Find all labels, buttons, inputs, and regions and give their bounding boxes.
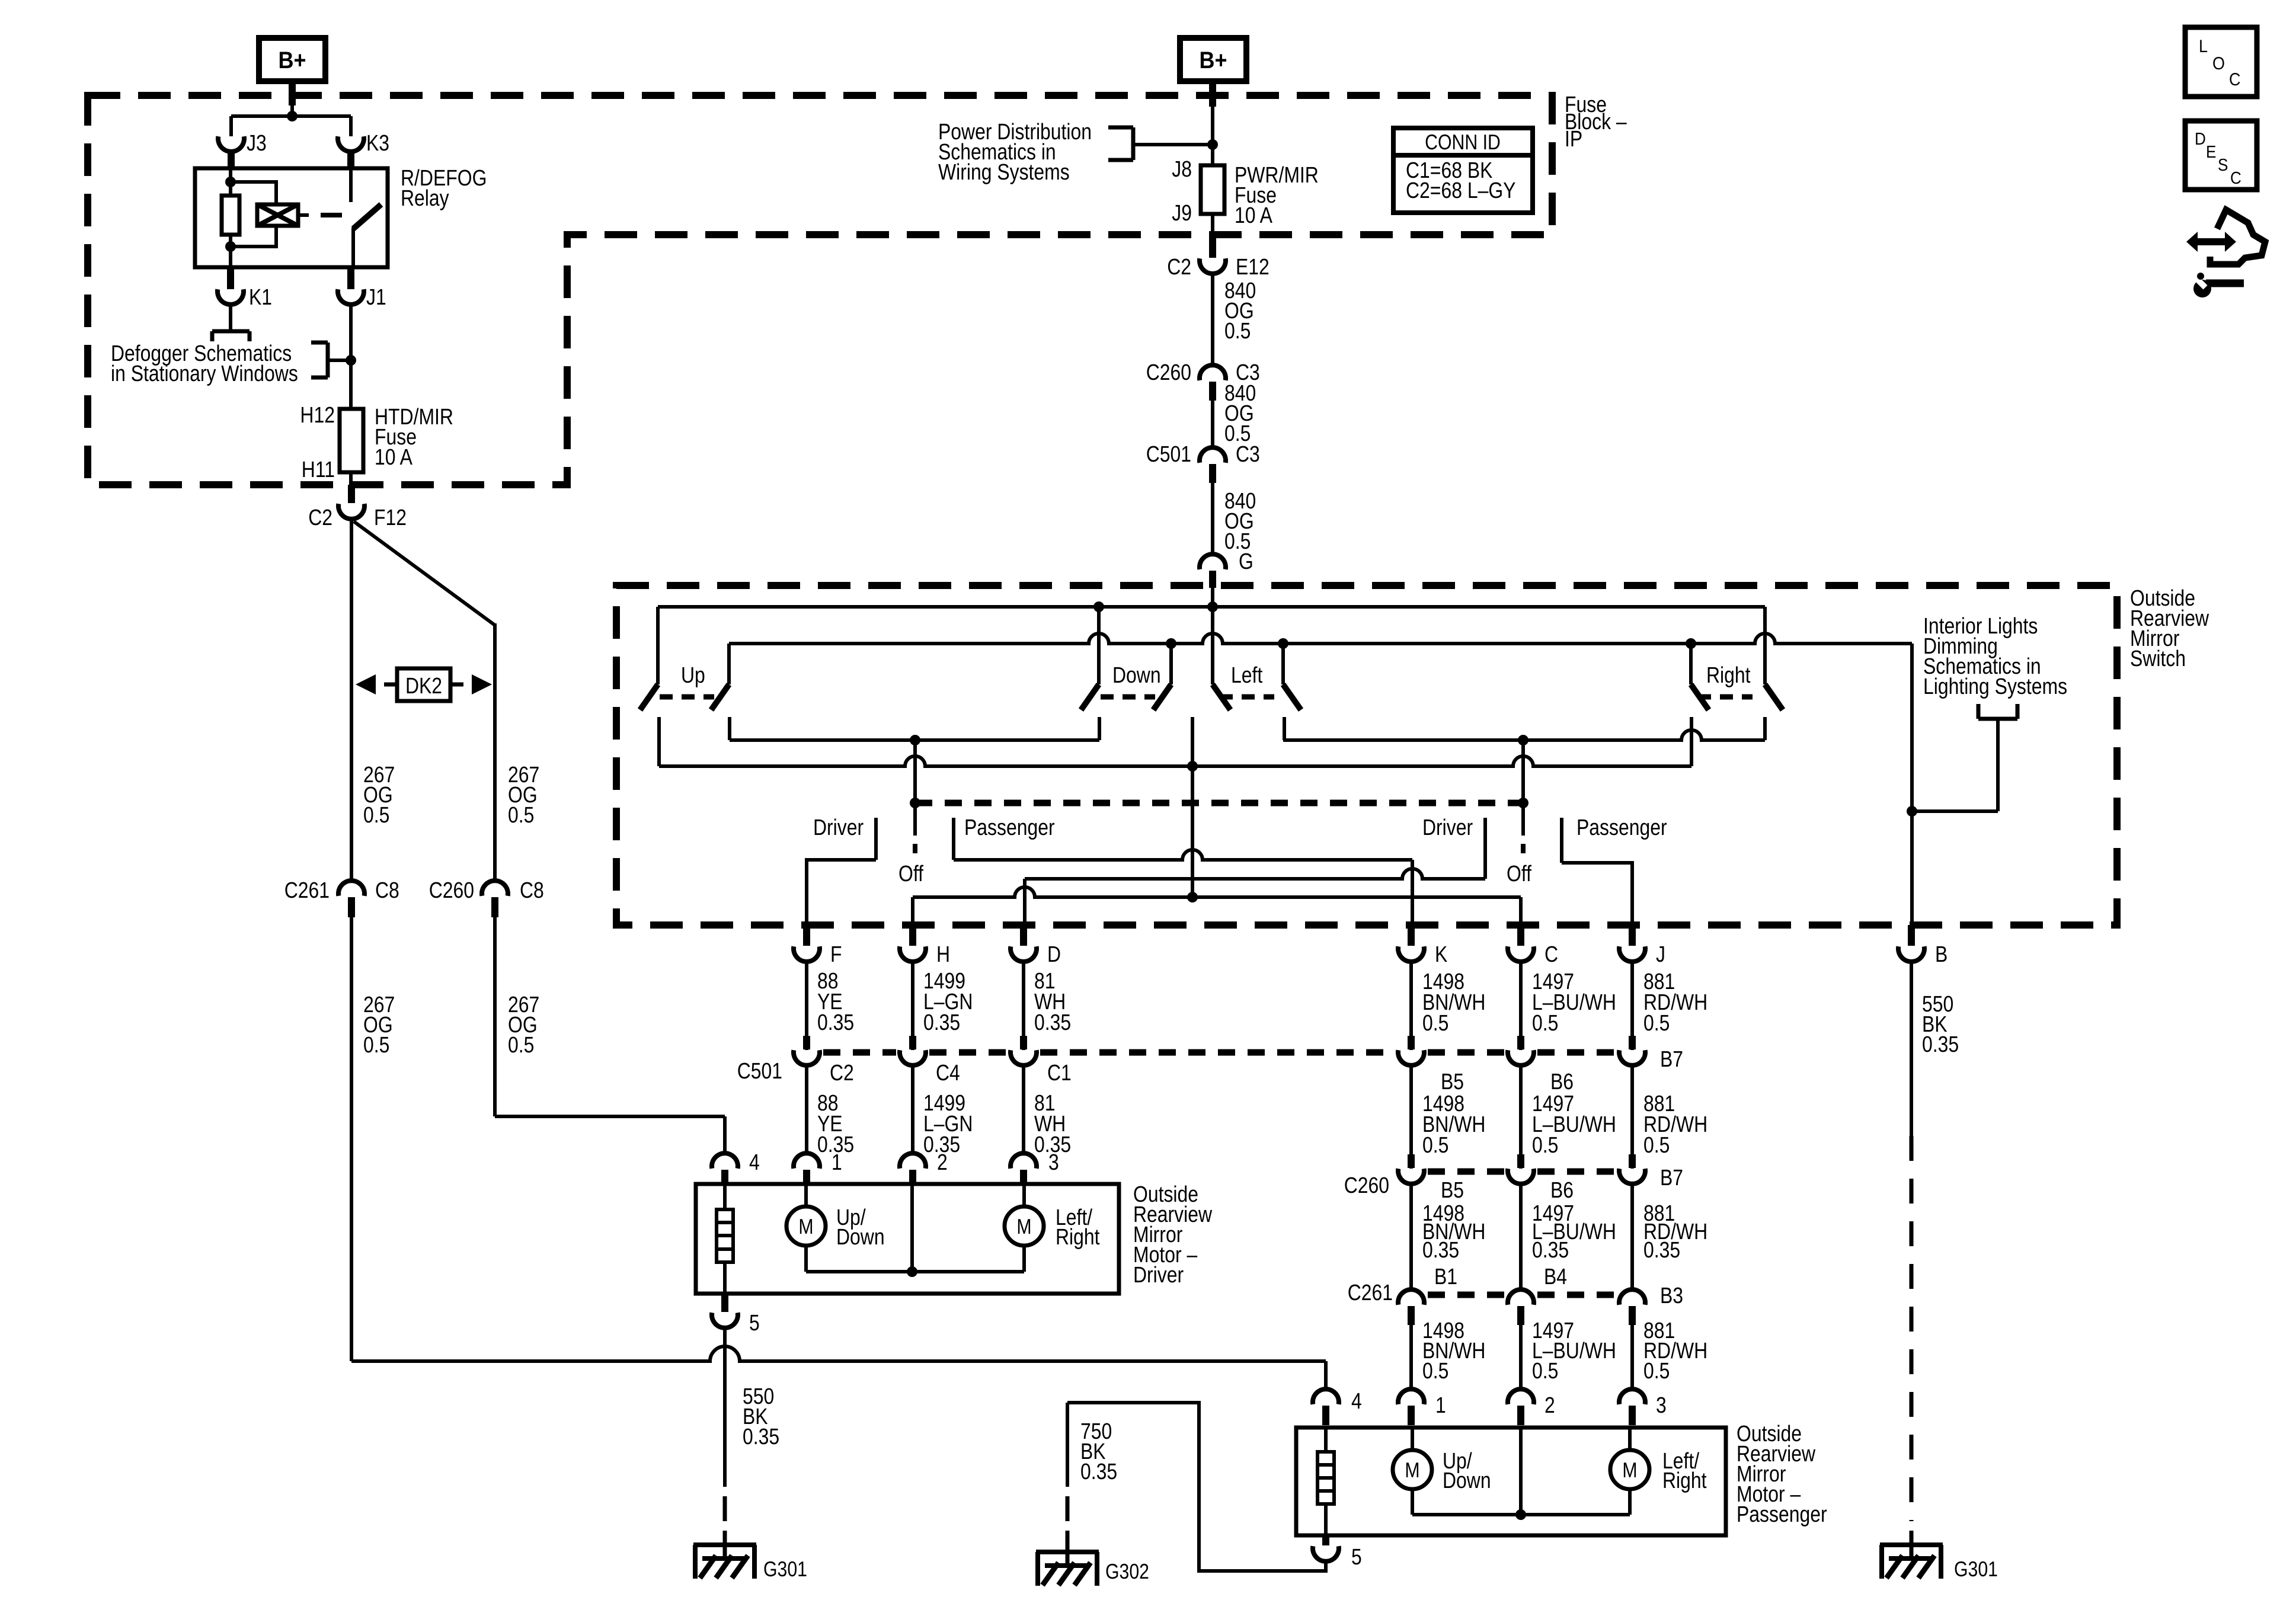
svg-text:0.35: 0.35 [817,1010,854,1035]
svg-text:0.5: 0.5 [1422,1359,1448,1384]
svg-text:5: 5 [1351,1545,1362,1570]
svg-text:C: C [2230,169,2241,188]
svg-text:E12: E12 [1236,255,1269,280]
svg-text:0.5: 0.5 [508,803,534,828]
svg-text:0.5: 0.5 [1532,1011,1558,1036]
svg-text:1: 1 [1435,1393,1446,1418]
svg-text:H: H [936,942,950,967]
svg-text:C: C [2229,70,2241,89]
svg-text:Up: Up [681,663,705,688]
svg-text:Left: Left [1231,663,1263,688]
svg-text:0.5: 0.5 [363,1033,389,1058]
svg-text:Driver: Driver [813,815,864,840]
svg-text:0.35: 0.35 [743,1425,779,1449]
svg-text:H12: H12 [300,403,335,428]
svg-text:B+: B+ [278,47,306,73]
svg-text:K1: K1 [249,285,272,310]
svg-text:Passenger: Passenger [1737,1502,1827,1527]
svg-text:0.5: 0.5 [1224,319,1251,344]
svg-text:O: O [2212,54,2225,73]
svg-text:0.35: 0.35 [1422,1238,1459,1263]
svg-text:C2: C2 [1167,255,1191,280]
svg-text:C8: C8 [520,878,544,903]
svg-text:Down: Down [1112,663,1161,688]
svg-text:3: 3 [1048,1150,1059,1175]
svg-text:B+: B+ [1199,47,1227,73]
svg-text:C501: C501 [737,1059,782,1084]
svg-text:Driver: Driver [1422,815,1473,840]
svg-text:K: K [1435,942,1447,967]
svg-text:Right: Right [1706,663,1751,688]
svg-text:C1: C1 [1047,1061,1072,1086]
svg-text:B6: B6 [1550,1178,1574,1203]
svg-text:Down: Down [1443,1468,1491,1493]
svg-text:G302: G302 [1105,1559,1149,1583]
svg-text:Relay: Relay [401,186,449,211]
svg-text:C260: C260 [1146,360,1191,385]
svg-text:4: 4 [749,1150,760,1175]
svg-text:Driver: Driver [1133,1263,1184,1288]
svg-text:0.5: 0.5 [1422,1011,1448,1036]
svg-text:K3: K3 [366,131,389,156]
svg-text:DK2: DK2 [405,674,442,699]
svg-text:M: M [798,1214,813,1238]
svg-text:C4: C4 [936,1061,960,1086]
svg-text:B1: B1 [1434,1265,1457,1289]
svg-text:0.35: 0.35 [1080,1460,1117,1484]
svg-text:C2=68 L–GY: C2=68 L–GY [1406,178,1515,203]
svg-text:3: 3 [1656,1393,1667,1418]
svg-text:E: E [2206,143,2216,162]
svg-text:0.5: 0.5 [1422,1133,1448,1158]
svg-text:0.35: 0.35 [923,1010,960,1035]
svg-text:Down: Down [836,1225,885,1250]
svg-text:2: 2 [1544,1393,1555,1418]
svg-text:Lighting Systems: Lighting Systems [1923,674,2067,699]
svg-text:F12: F12 [374,505,407,530]
svg-text:0.35: 0.35 [1922,1032,1959,1057]
svg-text:B3: B3 [1660,1284,1683,1308]
svg-text:C2: C2 [308,505,332,530]
svg-text:0.35: 0.35 [1034,1010,1071,1035]
svg-text:0.5: 0.5 [1643,1011,1670,1036]
svg-text:4: 4 [1351,1389,1362,1414]
svg-text:J: J [1656,942,1665,967]
svg-text:Off: Off [898,862,923,886]
svg-text:B7: B7 [1660,1166,1683,1190]
svg-text:Off: Off [1507,862,1531,886]
svg-text:G: G [1239,549,1253,574]
svg-text:0.5: 0.5 [1532,1359,1558,1384]
svg-text:0.35: 0.35 [1532,1238,1569,1263]
svg-text:Right: Right [1056,1225,1100,1250]
svg-text:1: 1 [832,1150,842,1175]
svg-text:10 A: 10 A [1235,203,1272,228]
svg-text:0.5: 0.5 [1643,1359,1670,1384]
svg-text:L: L [2199,37,2208,56]
svg-text:B5: B5 [1441,1070,1464,1094]
svg-text:B4: B4 [1544,1265,1567,1289]
svg-text:Switch: Switch [2130,647,2186,671]
svg-text:2: 2 [937,1150,948,1175]
svg-text:C261: C261 [1348,1281,1393,1305]
svg-text:0.35: 0.35 [1643,1238,1680,1263]
svg-text:F: F [830,942,842,967]
svg-text:0.5: 0.5 [508,1033,534,1058]
svg-text:in Stationary Windows: in Stationary Windows [111,361,298,386]
svg-text:B5: B5 [1441,1178,1464,1203]
svg-text:C: C [1544,942,1558,967]
svg-text:J8: J8 [1172,157,1192,182]
svg-text:J3: J3 [247,131,267,156]
svg-text:J9: J9 [1172,201,1192,226]
svg-text:M: M [1405,1458,1419,1482]
svg-text:M: M [1016,1214,1031,1238]
svg-text:Passenger: Passenger [964,815,1055,840]
svg-text:B6: B6 [1550,1070,1574,1094]
svg-text:C260: C260 [1344,1173,1389,1198]
svg-text:J1: J1 [366,285,386,310]
svg-text:5: 5 [749,1311,760,1336]
svg-text:Right: Right [1662,1468,1707,1493]
svg-text:D: D [1047,942,1061,967]
svg-text:H11: H11 [302,457,335,482]
svg-text:C3: C3 [1236,442,1260,467]
svg-text:IP: IP [1565,127,1582,152]
svg-text:0.5: 0.5 [1643,1133,1670,1158]
svg-text:C2: C2 [830,1061,854,1086]
svg-text:B: B [1935,942,1948,967]
svg-text:10 A: 10 A [375,445,412,470]
svg-text:Wiring Systems: Wiring Systems [938,160,1070,185]
svg-text:G301: G301 [763,1557,807,1581]
svg-text:C501: C501 [1146,442,1191,467]
svg-text:C261: C261 [284,878,330,903]
svg-text:0.5: 0.5 [363,803,389,828]
svg-text:C8: C8 [375,878,399,903]
svg-text:D: D [2195,130,2206,149]
svg-text:C260: C260 [429,878,474,903]
svg-text:M: M [1622,1458,1637,1482]
svg-text:0.5: 0.5 [1532,1133,1558,1158]
svg-text:CONN ID: CONN ID [1425,130,1501,154]
svg-text:G301: G301 [1954,1557,1998,1581]
svg-text:B7: B7 [1660,1047,1683,1072]
svg-text:S: S [2218,156,2228,175]
svg-text:Passenger: Passenger [1576,815,1667,840]
